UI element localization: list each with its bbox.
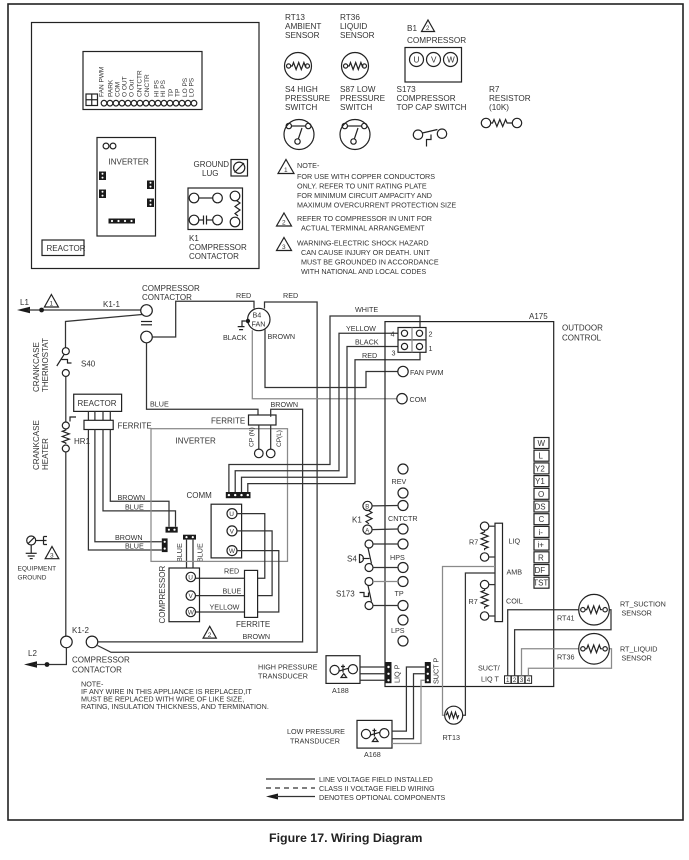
- svg-text:TP: TP: [395, 589, 404, 598]
- svg-text:BLUE: BLUE: [125, 503, 144, 512]
- pressure switch S4: [347, 540, 398, 572]
- svg-text:O: O: [538, 490, 544, 499]
- high pressure switch S4 (legend): [284, 85, 331, 150]
- svg-text:i+: i+: [538, 541, 545, 550]
- svg-text:CONTACTOR: CONTACTOR: [189, 252, 239, 261]
- svg-text:W: W: [447, 56, 455, 65]
- rotated pin labels: [99, 67, 196, 97]
- svg-text:3: 3: [520, 677, 524, 684]
- wire BROWN CP(L) to K1-2: [98, 409, 303, 642]
- svg-text:i-: i-: [539, 528, 544, 537]
- svg-text:Y2: Y2: [535, 464, 545, 473]
- svg-text:REV: REV: [392, 477, 407, 486]
- svg-text:SWITCH: SWITCH: [285, 103, 317, 112]
- wire COMM1 (white): [229, 316, 420, 492]
- svg-text:BLUE: BLUE: [223, 587, 242, 596]
- svg-text:TST: TST: [533, 579, 548, 588]
- wire BLUE K1-1 to CP(N): [147, 343, 259, 417]
- low pressure switch S87 (legend): [340, 85, 386, 150]
- svg-text:RED: RED: [236, 291, 251, 300]
- svg-text:BROWN: BROWN: [268, 332, 296, 341]
- svg-text:CRANKCASE: CRANKCASE: [32, 342, 41, 392]
- contactor K1-2: [61, 626, 98, 648]
- svg-text:O OUT: O OUT: [122, 76, 129, 97]
- svg-text:V: V: [189, 593, 194, 600]
- wire LIQT2 to RT41 right: [515, 610, 611, 676]
- svg-text:HPS: HPS: [390, 553, 405, 562]
- svg-text:WHITE: WHITE: [355, 305, 378, 314]
- svg-text:AMBIENT: AMBIENT: [285, 22, 321, 31]
- wire BROWN reactor to lower plug: [95, 430, 162, 542]
- svg-text:V: V: [230, 528, 235, 535]
- svg-text:LIQ T: LIQ T: [481, 675, 499, 684]
- wire BROWN B4 to FAN PWM: [265, 330, 398, 388]
- svg-text:CNCTR: CNCTR: [144, 74, 151, 97]
- wire BLUE reactor to lower plug: [88, 430, 161, 551]
- svg-text:1: 1: [429, 344, 433, 353]
- svg-text:DF: DF: [535, 566, 546, 575]
- svg-text:BLUE: BLUE: [175, 543, 184, 562]
- svg-text:2: 2: [429, 330, 433, 339]
- relay coil K1 (B/A): [352, 501, 398, 534]
- svg-text:SWITCH: SWITCH: [340, 103, 372, 112]
- sensor RT36 liquid (legend): [340, 13, 375, 80]
- svg-text:BLACK: BLACK: [355, 338, 379, 347]
- svg-text:1: 1: [50, 301, 54, 308]
- svg-text:BROWN: BROWN: [118, 493, 146, 502]
- ground lug (legend): [194, 160, 248, 179]
- wire LIQT1 to RT41 left: [508, 610, 579, 676]
- terminal pins TP: [398, 577, 408, 587]
- warning triangle 3 + note: [277, 238, 439, 277]
- svg-text:W: W: [229, 548, 236, 555]
- svg-text:WARNING-ELECTRIC SHOCK HAZARD: WARNING-ELECTRIC SHOCK HAZARD: [297, 239, 429, 248]
- wire RED B4 to K1-2 (via right): [98, 302, 318, 652]
- node CP(N): [258, 425, 260, 449]
- node L1: [17, 298, 141, 313]
- svg-text:S4: S4: [347, 555, 357, 564]
- resistor R7 (liq): [469, 522, 495, 561]
- terminal COM: [397, 394, 407, 404]
- svg-text:RATING, INSULATION THICKNESS,: RATING, INSULATION THICKNESS, AND TERMIN…: [81, 702, 269, 711]
- svg-text:Y1: Y1: [535, 477, 545, 486]
- inverter module (legend): [97, 138, 156, 237]
- svg-text:BLUE: BLUE: [125, 542, 144, 551]
- sensor RT13: [443, 706, 463, 742]
- svg-text:2: 2: [208, 632, 212, 639]
- node CP(L): [270, 425, 272, 449]
- svg-text:INVERTER: INVERTER: [176, 437, 217, 446]
- svg-text:R: R: [538, 553, 544, 562]
- K1 compressor contactor (legend): [188, 188, 247, 261]
- wire BROWN reactor to inverter plug: [110, 430, 169, 527]
- wire RED K1-1 to B4: [152, 301, 254, 337]
- fan motor B4: [246, 308, 270, 330]
- ferrite (compressor leads): [245, 570, 258, 617]
- wire HR1 to K1-2: [65, 452, 67, 636]
- svg-text:YELLOW: YELLOW: [210, 603, 240, 612]
- 2x2 grid block: [86, 94, 98, 106]
- board outline box: [32, 23, 260, 269]
- terminal pins CNTCTR: [398, 501, 408, 511]
- wire LIQT3 to RT36 left (gray): [522, 649, 579, 676]
- svg-text:COM: COM: [115, 82, 122, 97]
- equipment ground: [18, 536, 57, 582]
- svg-text:WITH NATIONAL AND LOCAL CODES: WITH NATIONAL AND LOCAL CODES: [301, 267, 426, 276]
- svg-text:R7: R7: [469, 538, 478, 547]
- sensor RT41 suction: [557, 594, 666, 625]
- svg-text:TRANSDUCER: TRANSDUCER: [290, 737, 340, 746]
- wire BLUE reactor to inverter plug: [103, 430, 176, 527]
- svg-text:LPS: LPS: [391, 626, 405, 635]
- svg-text:HI PS: HI PS: [160, 79, 167, 97]
- svg-text:B1: B1: [407, 24, 417, 33]
- compressor B1 (legend): [405, 20, 466, 82]
- svg-text:U: U: [414, 56, 420, 65]
- svg-text:3: 3: [282, 244, 286, 251]
- svg-text:A168: A168: [364, 750, 381, 759]
- svg-text:COIL: COIL: [506, 597, 523, 606]
- svg-text:LINE VOLTAGE FIELD INSTALLED: LINE VOLTAGE FIELD INSTALLED: [319, 775, 433, 784]
- svg-text:FAN PWM: FAN PWM: [99, 67, 106, 97]
- svg-text:CONTACTOR: CONTACTOR: [72, 666, 122, 675]
- warning triangle 3 (at ground): [45, 547, 59, 559]
- sensor RT13 ambient (legend): [285, 13, 322, 80]
- inverter input plug a: [166, 527, 178, 533]
- svg-text:S173: S173: [336, 590, 355, 599]
- svg-text:MAXIMUM OVERCURRENT PROTECTION: MAXIMUM OVERCURRENT PROTECTION SIZE: [297, 201, 456, 210]
- wire COMM3 (black): [242, 347, 401, 493]
- inverter UVW terminal box: [211, 504, 242, 558]
- svg-text:HEATER: HEATER: [41, 438, 50, 470]
- svg-text:1: 1: [506, 677, 510, 684]
- svg-text:4: 4: [527, 677, 531, 684]
- svg-text:1: 1: [284, 167, 288, 174]
- svg-text:R7: R7: [469, 597, 478, 606]
- ferrite (reactor leads): [84, 420, 113, 429]
- low pressure transducer A168: [287, 720, 392, 759]
- svg-text:LIQ: LIQ: [509, 537, 521, 546]
- connector strip J1: [83, 52, 202, 110]
- svg-text:3: 3: [50, 553, 54, 560]
- connector LIQ P: [386, 662, 392, 683]
- svg-text:BLUE: BLUE: [150, 400, 169, 409]
- svg-text:GROUND: GROUND: [18, 575, 47, 582]
- inverter input plug b: [162, 538, 168, 552]
- sensor input bar: [495, 523, 503, 621]
- svg-text:CNTCTR: CNTCTR: [388, 514, 418, 523]
- svg-text:K1: K1: [352, 516, 362, 525]
- svg-text:SENSOR: SENSOR: [285, 31, 320, 40]
- svg-text:SUCT/: SUCT/: [478, 664, 500, 673]
- S173 top cap switch (legend): [397, 85, 467, 147]
- wire COMM4 (red): [248, 350, 420, 492]
- svg-text:CAN CAUSE INJURY OR DEATH. UNI: CAN CAUSE INJURY OR DEATH. UNIT: [301, 248, 431, 257]
- svg-text:RT13: RT13: [285, 13, 305, 22]
- svg-text:AMB: AMB: [507, 568, 523, 577]
- svg-text:PRESSURE: PRESSURE: [340, 94, 386, 103]
- svg-text:DENOTES OPTIONAL COMPONENTS: DENOTES OPTIONAL COMPONENTS: [319, 793, 446, 802]
- svg-text:DS: DS: [535, 503, 546, 512]
- line legend: [266, 775, 446, 802]
- svg-text:V: V: [431, 56, 437, 65]
- svg-text:RT36: RT36: [557, 653, 574, 662]
- wire BLACK/COM B4 to control (gray): [252, 330, 396, 399]
- svg-text:A175: A175: [529, 312, 548, 321]
- wire COIL to RT13 right: [463, 573, 495, 715]
- svg-text:COMPRESSOR: COMPRESSOR: [407, 36, 466, 45]
- svg-text:TOP CAP SWITCH: TOP CAP SWITCH: [397, 103, 467, 112]
- svg-text:W: W: [188, 609, 195, 616]
- wire inverter U to compressor U (red): [195, 514, 264, 579]
- svg-text:RED: RED: [224, 567, 239, 576]
- svg-text:S87 LOW: S87 LOW: [340, 85, 376, 94]
- pin circles row: [101, 100, 197, 106]
- svg-text:COMPRESSOR: COMPRESSOR: [397, 94, 456, 103]
- svg-text:CP (N): CP (N): [249, 427, 256, 447]
- svg-text:TRANSDUCER: TRANSDUCER: [258, 672, 308, 681]
- COMM connector: [226, 492, 251, 498]
- wires BLUE plug c to compressor: [186, 540, 188, 568]
- wire AMB to RT13 left (gray): [443, 567, 496, 716]
- svg-text:COMPRESSOR: COMPRESSOR: [158, 565, 167, 623]
- resistor R7 (coil): [469, 580, 496, 620]
- svg-text:LOW PRESSURE: LOW PRESSURE: [287, 727, 345, 736]
- svg-text:REFER TO COMPRESSOR IN UNIT FO: REFER TO COMPRESSOR IN UNIT FOR: [297, 214, 432, 223]
- terminal strip W..TST: [533, 438, 549, 589]
- svg-text:BLUE: BLUE: [196, 543, 205, 562]
- svg-text:RT13: RT13: [443, 733, 460, 742]
- svg-text:B: B: [365, 505, 369, 511]
- reactor: [74, 394, 122, 420]
- svg-text:L1: L1: [20, 298, 29, 307]
- svg-text:BROWN: BROWN: [243, 632, 271, 641]
- power connector 2x2: [391, 328, 433, 358]
- svg-text:COMM: COMM: [187, 491, 213, 500]
- svg-text:COMPRESSOR: COMPRESSOR: [189, 243, 247, 252]
- warning triangle 2 (compressor): [203, 626, 216, 638]
- svg-text:RT36: RT36: [340, 13, 360, 22]
- svg-text:COM: COM: [410, 395, 427, 404]
- wires A168 to SUCT P: [392, 667, 425, 731]
- wire L1 tap to S40: [66, 315, 143, 348]
- terminal pins LPS: [398, 615, 408, 625]
- terminal FAN PWM: [398, 366, 408, 376]
- node L2: [24, 648, 66, 668]
- svg-text:THERMOSTAT: THERMOSTAT: [41, 338, 50, 392]
- svg-text:BROWN: BROWN: [271, 400, 299, 409]
- svg-text:CNTCTR: CNTCTR: [137, 70, 144, 97]
- svg-text:CRANKCASE: CRANKCASE: [32, 420, 41, 470]
- svg-text:S173: S173: [397, 85, 417, 94]
- REACTOR label box (legend): [42, 240, 86, 256]
- svg-text:K1-2: K1-2: [72, 626, 89, 635]
- connector SUCT P: [425, 662, 431, 683]
- crankcase thermostat S40: [57, 348, 96, 377]
- SUCT/LIQ T connector: [478, 664, 532, 685]
- svg-text:SENSOR: SENSOR: [622, 609, 652, 618]
- svg-text:LUG: LUG: [202, 169, 218, 178]
- svg-text:FAN PWM: FAN PWM: [410, 368, 444, 377]
- svg-text:K1: K1: [189, 234, 199, 243]
- svg-text:NOTE-: NOTE-: [297, 161, 320, 170]
- crankcase heater HR1: [62, 417, 90, 452]
- svg-text:REACTOR: REACTOR: [47, 244, 86, 253]
- inverter box: [151, 429, 288, 562]
- svg-text:ONLY. REFER TO UNIT RATING PLA: ONLY. REFER TO UNIT RATING PLATE: [297, 182, 427, 191]
- svg-text:GROUND: GROUND: [194, 160, 230, 169]
- svg-text:3: 3: [392, 349, 396, 358]
- terminal pins HPS: [398, 539, 408, 549]
- warning triangle 1 + notes: [278, 160, 456, 210]
- svg-text:PRESSURE: PRESSURE: [285, 94, 331, 103]
- svg-text:S40: S40: [81, 360, 96, 369]
- svg-text:FOR USE WITH COPPER CONDUCTORS: FOR USE WITH COPPER CONDUCTORS: [297, 172, 435, 181]
- svg-text:FAN: FAN: [252, 320, 266, 329]
- svg-text:RED: RED: [283, 291, 298, 300]
- svg-text:4: 4: [391, 330, 395, 339]
- svg-text:TP: TP: [175, 89, 182, 97]
- wire inverter W to compressor W (yellow): [195, 551, 278, 612]
- svg-text:C: C: [539, 515, 545, 524]
- svg-text:HIGH PRESSURE: HIGH PRESSURE: [258, 663, 318, 672]
- warning triangle 1 (at L1): [44, 295, 58, 308]
- svg-text:L2: L2: [28, 649, 37, 658]
- high pressure transducer A188: [258, 656, 360, 695]
- svg-text:CLASS II VOLTAGE FIELD WIRING: CLASS II VOLTAGE FIELD WIRING: [319, 784, 435, 793]
- svg-text:COMPRESSOR: COMPRESSOR: [72, 656, 130, 665]
- svg-text:SENSOR: SENSOR: [622, 654, 652, 663]
- svg-text:FERRITE: FERRITE: [236, 620, 270, 629]
- wires A188 to LIQ P: [360, 666, 386, 668]
- svg-text:2: 2: [282, 220, 286, 227]
- svg-text:U: U: [229, 511, 234, 518]
- svg-text:Figure 17. Wiring Diagram: Figure 17. Wiring Diagram: [269, 831, 422, 845]
- svg-text:RT_SUCTION: RT_SUCTION: [620, 600, 666, 609]
- svg-text:OUTDOOR: OUTDOOR: [562, 324, 603, 333]
- svg-text:SENSOR: SENSOR: [340, 31, 375, 40]
- svg-text:CP(L): CP(L): [276, 430, 283, 447]
- resistor R7 (legend): [481, 85, 530, 128]
- top cap switch S173: [336, 578, 398, 610]
- svg-text:A: A: [365, 528, 369, 534]
- svg-text:ACTUAL TERMINAL ARRANGEMENT: ACTUAL TERMINAL ARRANGEMENT: [301, 224, 425, 233]
- terminal pins REV: [398, 464, 408, 474]
- svg-text:YELLOW: YELLOW: [346, 324, 376, 333]
- ferrite (CP leads): [249, 415, 277, 425]
- svg-text:FERRITE: FERRITE: [118, 422, 152, 431]
- svg-text:LO PS: LO PS: [189, 77, 196, 97]
- svg-text:O Out: O Out: [129, 79, 136, 97]
- svg-text:RT41: RT41: [557, 614, 574, 623]
- svg-text:PARK: PARK: [108, 79, 115, 97]
- svg-text:LIQ P: LIQ P: [393, 664, 402, 683]
- wire inverter V to compressor V (blue): [195, 531, 272, 596]
- contactor K1-1: [103, 300, 152, 343]
- svg-text:W: W: [538, 439, 546, 448]
- svg-text:CONTROL: CONTROL: [562, 334, 602, 343]
- connector blocks: [99, 172, 106, 181]
- svg-text:COMPRESSOR: COMPRESSOR: [142, 284, 200, 293]
- svg-text:R7: R7: [489, 85, 500, 94]
- svg-text:RT_LIQUID: RT_LIQUID: [620, 645, 657, 654]
- svg-text:INVERTER: INVERTER: [109, 158, 150, 167]
- svg-text:FERRITE: FERRITE: [211, 417, 245, 426]
- svg-text:LIQUID: LIQUID: [340, 22, 367, 31]
- inverter output plug c: [183, 535, 196, 540]
- replacement wire note: [81, 680, 269, 712]
- svg-text:S4 HIGH: S4 HIGH: [285, 85, 318, 94]
- svg-text:2: 2: [513, 677, 517, 684]
- svg-text:BLACK: BLACK: [223, 333, 247, 342]
- svg-text:(10K): (10K): [489, 103, 509, 112]
- svg-text:A188: A188: [332, 686, 349, 695]
- svg-text:SUCT P: SUCT P: [432, 658, 441, 684]
- svg-text:L: L: [539, 452, 544, 461]
- wire LIQT4 to RT36 right (gray): [528, 649, 611, 676]
- control box A175: [385, 322, 554, 687]
- svg-text:RESISTOR: RESISTOR: [489, 94, 531, 103]
- svg-text:U: U: [188, 574, 193, 581]
- sensor RT36 liquid: [557, 634, 657, 665]
- wire COMM2 (yellow): [235, 333, 401, 492]
- svg-text:MUST BE GROUNDED IN ACCORDANCE: MUST BE GROUNDED IN ACCORDANCE: [301, 258, 439, 267]
- svg-text:EQUIPMENT: EQUIPMENT: [18, 566, 57, 573]
- svg-text:RED: RED: [362, 351, 377, 360]
- svg-text:B4: B4: [253, 311, 262, 320]
- wire S40 to HR1: [65, 377, 67, 423]
- fan ground hook + BLACK label: [238, 321, 246, 330]
- warning triangle 2 + note: [277, 213, 432, 233]
- svg-text:FOR MINIMUM CIRCUIT AMPACITY A: FOR MINIMUM CIRCUIT AMPACITY AND: [297, 191, 432, 200]
- svg-text:K1-1: K1-1: [103, 300, 120, 309]
- svg-text:REACTOR: REACTOR: [78, 399, 117, 408]
